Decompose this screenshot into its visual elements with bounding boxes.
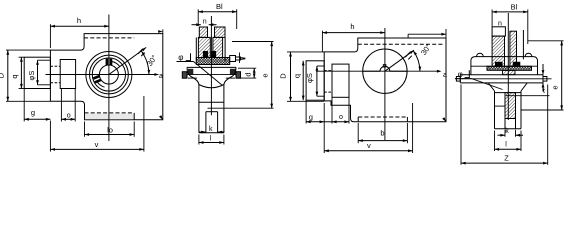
svg-text:g: g xyxy=(309,112,313,121)
extension line g left xyxy=(23,89,25,122)
hidden edge bottom right (dashed) xyxy=(358,116,407,118)
dim lo left xyxy=(85,134,135,136)
inner ring shoulder arc upper xyxy=(112,62,120,67)
svg-text:n: n xyxy=(203,18,207,25)
svg-text:v: v xyxy=(95,140,99,149)
screw hole hidden line upper xyxy=(50,65,60,67)
svg-text:k: k xyxy=(505,128,509,135)
svg-text:φS: φS xyxy=(305,73,314,83)
ext o right xyxy=(331,97,333,123)
svg-text:Bl: Bl xyxy=(511,2,518,11)
dim e left-section xyxy=(271,42,273,109)
svg-text:k: k xyxy=(209,126,213,133)
inner ring top-left section xyxy=(199,27,207,37)
slider flange bottom left xyxy=(188,77,197,79)
bore line left right-view xyxy=(363,70,380,72)
dim h right: ext xyxy=(321,31,323,52)
housing outer face right xyxy=(224,37,226,60)
neck right right-section xyxy=(520,91,522,129)
horizontal centerline xyxy=(46,74,159,76)
corner tick top-right left unit xyxy=(162,29,164,33)
dim Bl left-section xyxy=(198,11,237,13)
screw hole right wall xyxy=(217,112,219,133)
housing column left right-section xyxy=(492,36,504,66)
seal band right-section xyxy=(487,66,532,70)
dim q left xyxy=(20,57,22,88)
slide plate bottom right-section xyxy=(460,82,543,84)
rail stub left right-section xyxy=(456,77,460,82)
grease zerk side xyxy=(230,56,236,62)
hidden edge bottom slot (dashed) xyxy=(85,112,135,114)
slider flange left profile xyxy=(187,67,199,132)
neck flare left right-section xyxy=(489,83,495,91)
dim D right: ext xyxy=(287,51,324,53)
neck flare right right-section xyxy=(521,83,527,91)
dim l right-section xyxy=(495,148,522,150)
screw boss rect right xyxy=(332,64,349,97)
dim D left: ext top xyxy=(6,49,50,51)
vertical centerline xyxy=(108,15,110,142)
dim a left: arrow on centerline xyxy=(154,73,159,76)
dim v left xyxy=(50,148,143,150)
dim Z right-section: ext xyxy=(460,85,462,165)
shoulder bump right right-section xyxy=(525,53,532,56)
leader phi right-section xyxy=(455,78,472,80)
dim Bl right-section xyxy=(492,11,528,13)
housing column right section xyxy=(213,37,223,57)
slider flange top xyxy=(187,66,236,68)
slot edge left right-view xyxy=(357,117,359,122)
slot floor shading left xyxy=(85,114,134,120)
dim l right-section: ext xyxy=(494,131,496,152)
dim h right xyxy=(322,32,385,34)
rail stub right right-section xyxy=(543,77,547,82)
screw hole left wall xyxy=(205,112,207,133)
svg-text:D: D xyxy=(0,72,6,78)
dim a right: arrow xyxy=(437,70,442,73)
grease arrow right xyxy=(410,50,415,54)
svg-text:d: d xyxy=(243,72,252,76)
set screw lower-left section xyxy=(93,75,101,84)
T-slot groove dark left xyxy=(188,69,194,75)
dim h left xyxy=(50,25,109,27)
svg-text:h: h xyxy=(77,16,81,25)
svg-text:v: v xyxy=(367,141,371,150)
cast surface curve neck top xyxy=(199,85,224,88)
svg-text:e: e xyxy=(261,73,270,77)
neck left right-section xyxy=(494,91,496,129)
svg-text:t: t xyxy=(543,88,545,95)
housing outline right front view xyxy=(324,38,446,122)
plate end right right-section xyxy=(542,75,544,83)
screw hole hidden lower right xyxy=(324,91,332,93)
dim D left: ext bottom xyxy=(6,100,50,102)
housing boss wall right right-section xyxy=(522,30,524,59)
hidden edge top right (dashed) xyxy=(358,43,443,45)
neck internal line xyxy=(199,101,224,103)
dim a right: bottom arrow xyxy=(442,117,446,122)
grease line 30deg right xyxy=(385,50,414,71)
svg-text:q: q xyxy=(10,74,19,78)
dim e left-section: ext top xyxy=(232,41,274,43)
dim phiS left: ext xyxy=(38,59,51,61)
leader phi left-section xyxy=(177,61,194,63)
svg-text:q: q xyxy=(292,74,301,78)
inner ring stub left right-section xyxy=(492,27,505,36)
aux dim line top right xyxy=(408,33,446,35)
dim q right xyxy=(302,61,304,100)
grease fitting tick xyxy=(138,49,143,54)
svg-text:a: a xyxy=(443,72,447,79)
neck bottom right-section xyxy=(495,128,522,130)
seal dark blob right xyxy=(211,51,216,57)
screw hole top xyxy=(206,111,218,113)
screw frame box right xyxy=(306,61,324,100)
set screw top section xyxy=(106,59,109,65)
angle arc arrows xyxy=(148,70,151,75)
svg-text:φ: φ xyxy=(458,70,463,79)
dim phiS right xyxy=(316,66,318,96)
dim e left-section: ext bottom xyxy=(208,107,274,109)
shaft centerline right-section xyxy=(455,78,552,80)
inner ring above plate hatch xyxy=(503,70,516,74)
dim phiS left xyxy=(37,60,39,85)
dim l left-section: ext xyxy=(198,135,200,145)
svg-text:lo: lo xyxy=(107,125,113,134)
svg-text:g: g xyxy=(31,108,35,117)
slot step edge xyxy=(133,113,135,120)
bore line right right-view xyxy=(390,70,407,72)
bearing bore circle xyxy=(99,65,118,84)
dim phiS right: ext xyxy=(317,65,324,67)
horizontal centerline right xyxy=(316,70,440,72)
housing base line right-section xyxy=(471,65,538,67)
bearing circle right xyxy=(363,49,407,93)
svg-text:D: D xyxy=(279,73,288,79)
plate end left right-section xyxy=(459,75,461,83)
dim D right xyxy=(290,52,292,102)
insert notch right-view xyxy=(383,65,386,67)
angle arc right xyxy=(413,51,420,71)
slider flange right profile xyxy=(224,67,236,132)
adjusting screw frame box xyxy=(24,57,50,88)
dim b right: ext xyxy=(357,123,359,143)
side view centerline xyxy=(210,16,212,115)
dim d left-section: ext xyxy=(238,67,256,69)
ext g right xyxy=(305,100,307,123)
dim e right-section: ext bottom xyxy=(521,109,564,111)
bearing housing boss circle xyxy=(86,52,132,98)
svg-text:φS: φS xyxy=(27,71,36,81)
dim D left xyxy=(7,50,9,101)
zerk tick xyxy=(239,53,241,64)
dim e right-section xyxy=(561,41,563,110)
neck internal top right-section xyxy=(495,92,522,94)
extension line o left xyxy=(60,89,62,122)
extension line o right xyxy=(74,89,76,122)
screw hole hidden upper right xyxy=(324,70,332,72)
dim o right xyxy=(324,121,332,123)
housing column left section xyxy=(198,37,210,57)
T-slot groove dark right xyxy=(230,69,236,75)
dim b right xyxy=(358,140,407,142)
screw section hatch right-section xyxy=(505,93,516,119)
housing outline right-section xyxy=(471,57,538,75)
vertical centerline right xyxy=(384,28,386,140)
shoulder bump left right-section xyxy=(477,53,484,56)
screw hole hidden line lower xyxy=(50,82,60,84)
slider flange bottom right xyxy=(226,77,235,79)
inner ring shoulder arc lower xyxy=(97,82,105,88)
grease fitting tick2 xyxy=(141,53,144,57)
housing column right right-section xyxy=(510,31,517,66)
dim t right-section xyxy=(542,64,544,75)
seal blob left right-section xyxy=(495,62,503,67)
seal blob right right-section xyxy=(513,62,521,67)
centerline right-section xyxy=(507,13,509,120)
svg-text:φ: φ xyxy=(178,53,183,62)
hidden edge top slot (dashed) xyxy=(84,37,134,39)
grease tick2 right xyxy=(408,56,412,60)
svg-text:o: o xyxy=(339,114,343,121)
dim l left-section xyxy=(199,142,224,144)
svg-text:b: b xyxy=(380,128,384,137)
slider flange mid line xyxy=(187,74,236,76)
screw hole walls right-section xyxy=(504,119,506,129)
dim Bl right-section: ext xyxy=(491,10,493,27)
dim lo left: ext xyxy=(84,122,86,137)
svg-text:h: h xyxy=(350,22,354,31)
bearing outer raceway circle xyxy=(92,58,125,91)
seal band section xyxy=(196,58,229,65)
neck internal mid right-section xyxy=(495,105,506,107)
dim e right-section: ext top xyxy=(528,40,564,42)
grease tick right xyxy=(405,52,410,57)
slot edge right right-view xyxy=(406,117,408,122)
dim v left: ext xyxy=(49,121,51,152)
dim d left-section xyxy=(253,68,255,78)
rail stub right xyxy=(236,72,241,79)
neck bottom face xyxy=(199,132,224,134)
dim Z right-section xyxy=(461,162,548,164)
housing outline left front view xyxy=(50,34,162,120)
dim g right xyxy=(306,121,324,123)
dim g left xyxy=(24,118,50,120)
screw boss rectangle xyxy=(60,60,75,89)
dim Bl left-section: ext xyxy=(197,9,199,26)
angle arc arrows right xyxy=(419,67,422,72)
dim q left: ext xyxy=(19,56,25,58)
housing outer face left xyxy=(195,37,197,60)
svg-text:Z: Z xyxy=(504,153,509,162)
dim a left: bottom arrow xyxy=(159,115,163,120)
svg-text:e: e xyxy=(551,85,560,89)
rail stub left xyxy=(182,72,187,79)
ext k right-section xyxy=(504,130,506,137)
svg-text:a: a xyxy=(159,73,163,80)
dim h left: extension xyxy=(49,24,51,48)
bearing outer ring circle xyxy=(90,55,129,94)
inner ring top-right section xyxy=(215,27,226,37)
svg-text:o: o xyxy=(67,112,71,119)
dim v right xyxy=(324,150,412,152)
seal dark blob left xyxy=(203,51,208,57)
grease fitting 30deg line xyxy=(109,47,146,74)
grease fitting 30deg arrowhead xyxy=(142,47,147,51)
dim o left xyxy=(61,118,75,120)
insert bump right-view xyxy=(380,66,390,71)
angle arc 30deg xyxy=(141,51,149,75)
dim v right: ext xyxy=(323,103,325,153)
svg-text:Bl: Bl xyxy=(216,2,223,11)
slide plate top right-section xyxy=(460,74,543,76)
